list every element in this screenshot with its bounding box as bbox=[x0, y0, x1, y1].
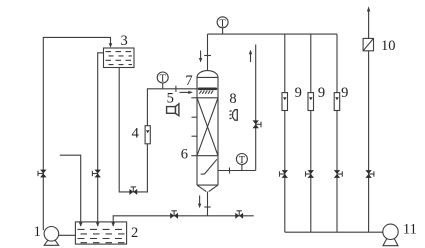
svg-text:T: T bbox=[160, 74, 166, 85]
vent riser D bbox=[368, 10, 370, 232]
nozzle tick bottom bbox=[191, 155, 197, 157]
rotameter 9b bbox=[308, 93, 314, 111]
packing top line bbox=[197, 97, 218, 99]
svg-text:9: 9 bbox=[318, 85, 325, 101]
nozzle tick mid2 bbox=[192, 135, 198, 137]
svg-text:7: 7 bbox=[185, 73, 192, 89]
svg-text:T: T bbox=[239, 155, 245, 166]
gas header bbox=[208, 33, 338, 35]
spray hatching bbox=[199, 91, 213, 94]
nozzle tick mid1 bbox=[192, 116, 198, 118]
svg-text:9: 9 bbox=[341, 85, 348, 101]
flange tick on sump outlet bbox=[229, 168, 231, 174]
instrument T1 on header bbox=[217, 17, 228, 34]
bottom drain line bbox=[113, 216, 254, 226]
column U: dome bbox=[197, 71, 218, 78]
svg-text:5: 5 bbox=[167, 91, 174, 107]
wire L-line into tank2 bbox=[60, 155, 81, 226]
flange tick on drain bbox=[204, 206, 210, 208]
bottom gas header bbox=[285, 231, 383, 233]
cone bbox=[197, 185, 218, 192]
svg-text:9: 9 bbox=[295, 85, 302, 101]
valve V10 on drain line bbox=[235, 211, 243, 219]
tank 3 bbox=[104, 48, 135, 68]
packing X bbox=[197, 98, 218, 156]
valve V8 on bottom jog bbox=[129, 187, 137, 195]
valve V3 on gas riser bbox=[253, 120, 262, 128]
svg-text:2: 2 bbox=[131, 225, 138, 241]
svg-text:6: 6 bbox=[181, 147, 188, 163]
valve V2 on overflow line bbox=[92, 170, 101, 178]
valve V1 on left riser bbox=[38, 170, 47, 178]
svg-text:10: 10 bbox=[381, 38, 396, 54]
svg-text:4: 4 bbox=[132, 126, 140, 142]
instrument T3 on sump outlet bbox=[236, 154, 247, 171]
sump internal dip pipe bbox=[201, 159, 217, 174]
svg-text:8: 8 bbox=[229, 91, 236, 107]
column drain pipe bbox=[207, 192, 209, 216]
valve V5 on line B bbox=[306, 170, 315, 178]
valve V9 on drain line bbox=[170, 211, 178, 219]
packing bottom line bbox=[197, 155, 218, 157]
flow arrow into column bbox=[180, 91, 194, 94]
rotameter 9c bbox=[334, 93, 340, 111]
sump outlet line to riser bbox=[218, 170, 256, 172]
valve V4 on line A bbox=[280, 170, 289, 178]
svg-text:3: 3 bbox=[120, 33, 127, 49]
wire tank3 overflow to tank2 bbox=[98, 53, 104, 226]
flange tick on feed line bbox=[175, 86, 177, 92]
gas outlet riser bbox=[255, 45, 257, 171]
svg-text:1: 1 bbox=[34, 224, 41, 240]
column top pipe bbox=[207, 34, 209, 71]
instrument T2 on feed line bbox=[157, 72, 168, 89]
svg-text:T: T bbox=[220, 18, 226, 29]
tank 2 bbox=[75, 222, 126, 244]
rotameter 4 bbox=[145, 126, 150, 144]
valve V7 on vent riser bbox=[365, 170, 374, 178]
flange tick on top pipe bbox=[204, 55, 211, 57]
distributor bar bbox=[199, 88, 216, 91]
wire left riser and top run to tank 3 bbox=[43, 37, 110, 230]
up flow arrow beside riser bbox=[249, 50, 252, 62]
gas branch line B bbox=[310, 34, 312, 232]
sump bottom line bbox=[197, 184, 218, 186]
down flow arrow at drain bbox=[198, 196, 201, 209]
nozzle tick top bbox=[191, 97, 197, 99]
gas branch line C bbox=[336, 34, 338, 232]
svg-text:11: 11 bbox=[403, 222, 417, 238]
pump 1 bbox=[44, 227, 75, 246]
wire tank3 outlet down, across, up through rotameter to column bbox=[119, 68, 197, 192]
valve V6 on line C bbox=[334, 170, 343, 178]
gas sampler box 10 bbox=[363, 38, 373, 50]
nozzle symbol 8 bbox=[230, 110, 238, 121]
down flow arrow at column top bbox=[199, 51, 202, 63]
column shell bbox=[197, 77, 218, 185]
gas branch line A bbox=[284, 34, 286, 232]
pump 11 bbox=[383, 224, 398, 246]
rotameter 9a bbox=[282, 93, 288, 111]
speaker symbol 5 bbox=[167, 104, 179, 116]
